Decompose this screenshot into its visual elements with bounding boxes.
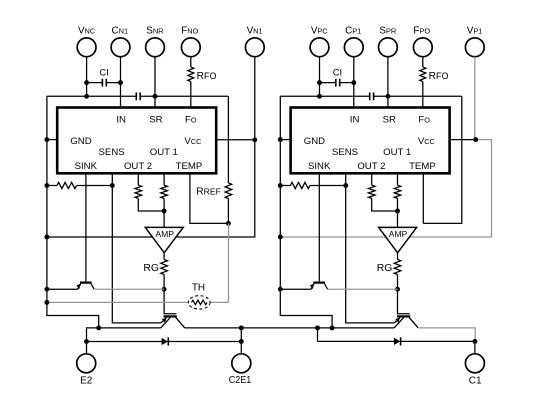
resistor sense left [57,182,77,188]
pin label Vcc left [184,136,201,147]
resistor RG left [161,260,168,275]
wire SENS pin right down to Q4 emitter [346,173,395,323]
svg-text:FO: FO [418,114,430,125]
junction sense SENS line right [343,183,348,188]
wire Q2 right to C2E1 node [185,327,242,329]
terminal VNC [77,38,96,57]
label VP1 [467,26,483,37]
label VNC [78,26,96,37]
wire left ground rail vertical [47,96,99,328]
svg-text:OUT 2: OUT 2 [357,161,385,172]
svg-text:SR: SR [149,114,162,125]
wire SINK pin to Q1 base [85,173,87,281]
terminal C1 [465,354,484,373]
terminal CN1 [111,38,130,57]
wire Q1 collector to RG node (gray) [94,288,164,290]
label SNR [146,26,163,37]
transistor Q2 left power [161,316,185,328]
wire Q3 collector to RG node right (gray) [327,288,397,290]
pin label SR right [383,114,396,125]
svg-text:VPC: VPC [311,26,329,37]
svg-text:IN: IN [116,114,126,125]
diode D1 [162,337,169,345]
wire RREF branch from rail to TEMP node [227,96,229,223]
wire SINK sense resistor run left [47,185,112,187]
svg-text:VCC: VCC [418,136,435,147]
junction CI right [118,80,123,85]
svg-text:CN1: CN1 [112,26,129,37]
junction GND right rail [278,137,283,142]
wire SINK pin to Q3 base [318,173,320,281]
wire RFO to Fo pin right [422,82,424,108]
wire C1 riser [474,341,476,354]
svg-text:CI: CI [333,67,342,78]
svg-text:RFO: RFO [197,71,217,82]
junction OUT resistors join right [395,209,400,214]
capacitor CI left wire [87,82,121,84]
svg-text:SR: SR [383,114,396,125]
wire TEMP pin to RREF node [190,173,229,223]
junction amp input rail right [278,235,283,240]
svg-text:C2E1: C2E1 [229,375,252,386]
svg-text:CP1: CP1 [345,26,361,37]
pin label SINK right [308,161,331,172]
label TH [192,282,205,293]
resistor on OUT 1 left [161,185,168,198]
pin label SENS left [99,147,125,158]
wire Q3 emitter to rail right [280,288,311,290]
label RG left [143,263,159,274]
wire OUT 2 pin to resistor right [372,173,398,211]
junction SNR rail [153,94,158,99]
resistor RREF [225,183,232,199]
terminal VN1 [245,38,264,57]
svg-text:RG: RG [377,263,393,274]
svg-text:SENS: SENS [99,147,125,158]
label VPC [311,26,329,37]
svg-text:C1: C1 [469,375,482,386]
terminal SPR [379,38,398,57]
wire Vcc to VP1 node right [450,139,476,141]
svg-text:FPO: FPO [413,26,430,37]
svg-text:TEMP: TEMP [176,161,203,172]
svg-text:OUT 2: OUT 2 [124,161,152,172]
terminal SNR [146,38,165,57]
thermistor TH element [192,300,208,304]
junction TEMP RREF [226,221,231,226]
wire Q1 emitter to rail left [47,288,78,290]
wire CN1 to IN pin [120,57,122,108]
svg-text:VNC: VNC [78,26,96,37]
wire VN1 down to Vcc node and amp input rail [47,57,255,237]
junction CI left [84,80,89,85]
label C2E1 [229,375,252,386]
wire SINK sense resistor run right [280,185,345,187]
resistor RFO left [188,67,194,82]
svg-text:IN: IN [350,114,360,125]
terminal E2 [77,354,96,373]
wire GND pin right [280,139,290,141]
junction sense rail right [278,183,283,188]
op-amp AMP left [145,227,183,252]
wire right branch rail to TEMP node [423,96,462,223]
junction C1 bus [472,339,477,344]
label CN1 [112,26,129,37]
pin label SR left [149,114,162,125]
transistor Q1 left [77,283,95,290]
junction RG collector node left [162,287,167,292]
IC block U1 [57,108,216,174]
terminal VPC [310,38,329,57]
wire C2E1 node to Q4 emitter [241,327,394,329]
pin label Fo right [418,114,430,125]
junction Vcc VN1 [252,137,257,142]
wire VNC to CI and rail [86,57,88,97]
label RREF [196,186,221,197]
wire FNO to RFO [190,57,192,67]
svg-text:TH: TH [192,282,205,293]
label CP1 [345,26,361,37]
terminal VP1 [465,38,484,57]
wire VPC to CI and rail [319,57,321,97]
junction TH rail left [44,300,49,305]
svg-text:SENS: SENS [332,147,358,158]
junction VNC rail [84,94,89,99]
capacitor CI right wire [320,82,354,84]
resistor sense right [290,182,310,188]
junction stepped wire Q2 emitter run [96,325,101,330]
svg-text:GND: GND [304,136,325,147]
junction E2 bus [84,339,89,344]
label CI right [333,67,342,78]
pin label GND left [70,136,91,147]
wire amp output to RG right [397,253,399,260]
wire bus right with diode gap [318,328,475,342]
pin label IN left [116,114,126,125]
resistor on OUT 2 left [135,185,142,198]
op-amp AMP right [379,227,417,252]
wire right ground rail vertical [280,96,332,328]
label FPO [413,26,430,37]
terminal FPO [413,38,432,57]
wire input rail left (with series cap gap) [47,95,229,97]
junction bus riser right [315,325,320,330]
transistor Q3 right [310,283,328,290]
terminal C2E1 [232,354,251,373]
svg-text:GND: GND [70,136,91,147]
capacitor CI left [102,79,106,87]
wire bus E2 to C2E1 with diode gap [87,341,242,343]
wire amp output to RG [163,253,165,260]
label SPR [379,26,396,37]
wire OUT 1 pin to resistor and amp [163,173,165,227]
wire TH right to TEMP node (gray) [211,223,229,302]
capacitor series input right [370,92,374,100]
junction RG collector node right [395,287,400,292]
wire OUT 2 pin to resistor [138,173,164,211]
capacitor series input left [136,92,140,100]
label RFO left [197,71,217,82]
junction SPR rail [385,94,390,99]
junction OUT resistors join [162,209,167,214]
wire SNR to SR pin [154,57,156,108]
junction Vcc VP1 [473,137,478,142]
wire FPO to RFO [422,57,424,67]
svg-text:RG: RG [143,263,159,274]
wire TH left (gray) [47,301,188,303]
pin label OUT 2 right [357,161,385,172]
junction sense rail left [44,183,49,188]
junction Q3 emitter rail [278,287,283,292]
wire GND pin left [47,139,57,141]
wire CP1 to IN pin [353,57,355,108]
junction C2E1 upper [239,325,244,330]
wire VP1 node to amp input rail (gray) [280,140,491,237]
svg-text:OUT 1: OUT 1 [383,147,411,158]
resistor on OUT 1 right [394,185,401,198]
resistor on OUT 2 right [368,185,375,198]
pin label SINK left [75,161,98,172]
wire E2 riser and emitter run [87,328,161,354]
svg-text:SINK: SINK [75,161,98,172]
label RFO right [429,71,449,82]
IC block U2 [291,108,450,174]
pin label Fo left [185,114,197,125]
wire OUT 1 pin to resistor and amp right [397,173,399,227]
pin label TEMP right [409,161,436,172]
pin label GND right [304,136,325,147]
svg-text:SINK: SINK [308,161,331,172]
resistor RFO right [420,67,426,82]
wire VP1 down (gray) [474,57,476,140]
label C1 [469,375,482,386]
svg-text:VCC: VCC [184,136,201,147]
pin label SENS right [332,147,358,158]
svg-text:VP1: VP1 [467,26,483,37]
capacitor CI right [336,79,340,87]
pin label OUT 1 right [383,147,411,158]
thermistor TH [188,296,210,309]
wire RG to Q4 gate [398,275,410,314]
svg-text:RFO: RFO [429,71,449,82]
svg-text:AMP: AMP [155,229,174,239]
svg-text:E2: E2 [80,375,93,386]
svg-text:SPR: SPR [379,26,396,37]
svg-text:CI: CI [99,67,108,78]
wire Q4 right to C1 (gray) [418,328,475,342]
resistor RG right [394,260,401,275]
terminal CP1 [344,38,363,57]
label E2 [80,375,93,386]
diode D2 [394,337,401,345]
wire TEMP pin right [422,173,424,223]
svg-text:FNO: FNO [181,26,198,37]
pin label Vcc right [418,136,435,147]
wire SPR to SR pin [387,57,389,108]
pin label TEMP left [176,161,203,172]
svg-text:FO: FO [185,114,197,125]
wire C2E1 riser [240,328,242,354]
svg-text:VN1: VN1 [247,26,263,37]
terminal FNO [181,38,200,57]
junction sense SENS line left [110,183,115,188]
label VN1 [247,26,263,37]
wire input rail right (with series cap gap) [280,95,462,97]
svg-text:AMP: AMP [389,229,408,239]
transistor Q4 right power [394,316,418,328]
wire RG to Q2 gate [164,275,176,314]
label CI left [99,67,108,78]
pin label IN right [350,114,360,125]
junction CI right b [351,80,356,85]
junction amp input rail left [44,235,49,240]
label RG right [377,263,393,274]
junction stepped wire right [330,325,335,330]
junction CI right a [317,80,322,85]
svg-text:OUT 1: OUT 1 [150,147,178,158]
junction Q1 emitter rail [44,287,49,292]
wire Vcc to VN1 line left [216,139,255,141]
label FNO [181,26,198,37]
junction C2E1 bus [239,339,244,344]
wire RFO to Fo pin [190,82,192,108]
svg-text:SNR: SNR [146,26,163,37]
svg-text:RREF: RREF [196,186,221,197]
wire SENS pin down and right to Q2 emitter [112,173,161,323]
junction VPC rail [317,94,322,99]
junction GND left rail [44,137,49,142]
svg-text:TEMP: TEMP [409,161,436,172]
pin label OUT 2 left [124,161,152,172]
pin label OUT 1 left [150,147,178,158]
